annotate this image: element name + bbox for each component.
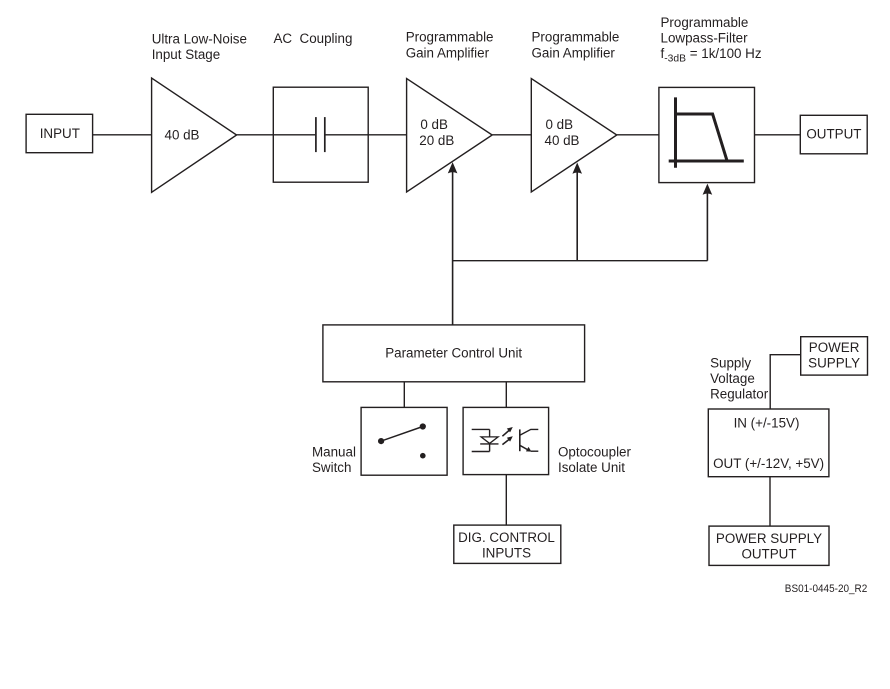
svg-text:DIG. CONTROL: DIG. CONTROL — [458, 530, 555, 545]
svg-text:Supply: Supply — [710, 356, 751, 371]
svg-text:Parameter Control Unit: Parameter Control Unit — [385, 346, 522, 361]
control wire to filter with arrowhead — [703, 184, 713, 261]
optocoupler phototransistor — [520, 429, 539, 451]
amplifier PGA2 (0 dB / 40 dB) — [531, 79, 617, 193]
wire PCU to manual switch — [403, 382, 405, 408]
wire filter to OUTPUT — [755, 134, 801, 136]
wire regulator to POWER SUPPLY OUTPUT — [769, 477, 771, 526]
label Manual Switch — [312, 444, 356, 475]
optocoupler U1 box — [463, 407, 548, 474]
svg-text:Programmable: Programmable — [532, 30, 620, 45]
voltage regulator box IN/OUT — [708, 409, 829, 477]
Parameter Control Unit box — [323, 325, 585, 382]
svg-text:POWER: POWER — [809, 340, 860, 355]
svg-text:40 dB: 40 dB — [545, 133, 580, 148]
capacitor C1 — [273, 117, 368, 152]
amplifier PGA1 (0 dB / 20 dB) — [407, 79, 493, 193]
svg-text:OUT (+/-12V, +5V): OUT (+/-12V, +5V) — [713, 456, 824, 471]
svg-text:Ultra Low-Noise: Ultra Low-Noise — [152, 32, 247, 47]
svg-text:Programmable: Programmable — [661, 15, 749, 30]
label Programmable Lowpass-Filter f-3dB — [661, 15, 762, 65]
svg-text:Switch: Switch — [312, 460, 351, 475]
svg-text:OUTPUT: OUTPUT — [741, 547, 796, 562]
svg-text:Gain Amplifier: Gain Amplifier — [532, 45, 616, 60]
svg-text:SUPPLY: SUPPLY — [808, 356, 860, 371]
AC coupling block box — [273, 87, 368, 182]
wire AC coupling to PGA1 — [368, 134, 406, 136]
node POWER SUPPLY OUTPUT box — [709, 526, 829, 565]
svg-text:Lowpass-Filter: Lowpass-Filter — [661, 31, 749, 46]
wire PCU to optocoupler — [505, 382, 507, 408]
svg-text:Isolate Unit: Isolate Unit — [558, 460, 625, 475]
filter response icon — [669, 97, 744, 167]
wire POWER SUPPLY to regulator — [770, 355, 801, 409]
control wire to PGA2 with arrowhead — [572, 163, 582, 261]
svg-text:20 dB: 20 dB — [419, 133, 454, 148]
svg-text:Gain Amplifier: Gain Amplifier — [406, 45, 490, 60]
svg-text:INPUTS: INPUTS — [482, 546, 531, 561]
wire PGA1 to PGA2 — [492, 134, 531, 136]
manual switch S1 box — [361, 407, 447, 475]
lowpass filter block box — [659, 87, 755, 182]
svg-text:0 dB: 0 dB — [420, 117, 448, 132]
svg-text:Programmable: Programmable — [406, 30, 494, 45]
svg-text:Manual: Manual — [312, 444, 356, 459]
wire PGA2 to lowpass filter — [617, 134, 659, 136]
wire INPUT to amplifier A1 — [93, 134, 152, 136]
optocoupler LED diode — [472, 429, 499, 451]
svg-text:Input Stage: Input Stage — [152, 47, 221, 62]
svg-text:Optocoupler: Optocoupler — [558, 444, 631, 459]
label Programmable Gain Amplifier (PGA2) — [532, 30, 620, 61]
label Programmable Gain Amplifier (PGA1) — [406, 30, 494, 61]
amplifier A1 (Ultra Low-Noise Input Stage, 40 dB) — [152, 78, 237, 192]
wire optocoupler to DIG. CONTROL INPUTS — [505, 475, 507, 525]
svg-text:IN (+/-15V): IN (+/-15V) — [734, 416, 800, 431]
svg-text:Regulator: Regulator — [710, 387, 769, 402]
svg-text:AC Coupling: AC Coupling — [274, 31, 353, 46]
svg-text:BS01-0445-20_R2: BS01-0445-20_R2 — [785, 583, 868, 595]
control wire to PGA1 with arrowhead — [448, 162, 458, 325]
control bus horizontal wire — [453, 260, 708, 262]
svg-text:0 dB: 0 dB — [546, 117, 574, 132]
svg-text:Voltage: Voltage — [710, 371, 755, 386]
wire A1 to AC coupling — [237, 134, 274, 136]
label Supply Voltage Regulator — [710, 356, 769, 402]
node DIG. CONTROL INPUTS box — [454, 525, 561, 563]
label Optocoupler Isolate Unit — [558, 444, 631, 475]
label Ultra Low-Noise Input Stage — [152, 32, 247, 63]
node INPUT box — [26, 114, 93, 152]
node POWER SUPPLY box — [801, 337, 868, 375]
svg-text:40 dB: 40 dB — [165, 128, 200, 143]
node OUTPUT box — [800, 115, 867, 154]
optocoupler light arrows — [502, 427, 512, 445]
manual switch contacts icon — [378, 423, 426, 458]
svg-text:OUTPUT: OUTPUT — [806, 127, 861, 142]
svg-text:POWER SUPPLY: POWER SUPPLY — [716, 531, 822, 546]
svg-text:INPUT: INPUT — [40, 126, 80, 141]
